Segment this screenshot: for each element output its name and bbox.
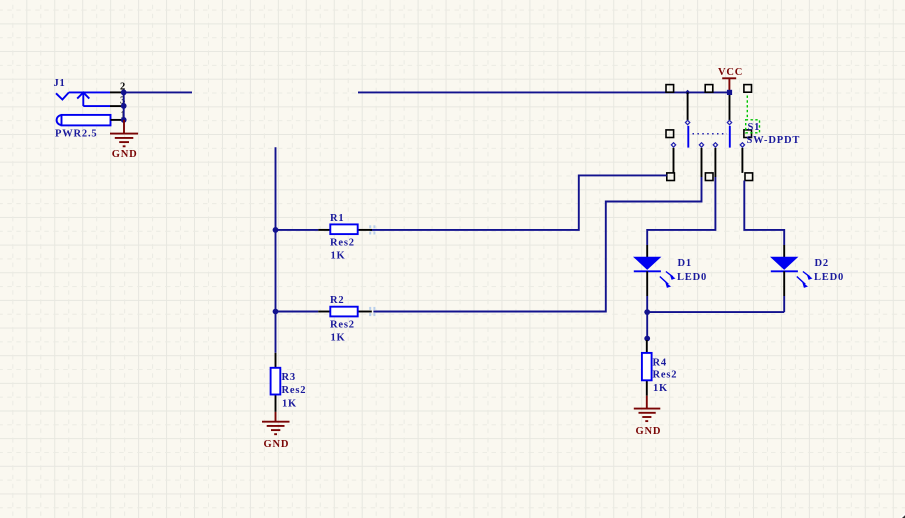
switch S1 terminal square top-mid <box>705 85 713 93</box>
J1 pin 3 <box>110 105 122 107</box>
svg-text:GND: GND <box>264 439 290 450</box>
wire J1 pins vertical <box>123 92 125 120</box>
svg-text:PWR2.5: PWR2.5 <box>55 129 97 140</box>
svg-text:R3: R3 <box>282 372 296 383</box>
window corner artifact <box>900 513 905 518</box>
svg-text:1K: 1K <box>282 398 297 409</box>
wire R2 to switch throw 1b <box>373 177 701 312</box>
switch S1 terminal square bottom-right <box>745 173 753 181</box>
wire to R2 <box>276 311 319 313</box>
resistor R3 <box>271 353 281 412</box>
resistor R2 <box>318 307 372 317</box>
wire top bus <box>358 91 730 93</box>
switch S1 mechanical link dotted <box>693 133 728 135</box>
switch S1 common pin 1 <box>687 92 689 120</box>
power port GND at R4 <box>634 396 661 421</box>
wire D2 cathode down <box>783 296 785 312</box>
junction at J1 pin 1 <box>121 117 127 123</box>
resistor R1 <box>318 224 372 234</box>
svg-text:Res2: Res2 <box>653 370 678 381</box>
wire switch throw 2a to D1 anode <box>647 177 715 245</box>
switch S1 throw pin 1a <box>673 148 675 173</box>
junction at R1 tap <box>273 227 279 233</box>
svg-text:1K: 1K <box>331 333 346 344</box>
J1 pin 1 <box>111 119 123 121</box>
power port GND at R3 <box>262 412 290 434</box>
junction at R4 pin <box>644 336 650 342</box>
J1 pin 2 <box>110 91 122 93</box>
switch S1 throw hotspot diamond 1a <box>671 143 675 147</box>
svg-text:Res2: Res2 <box>282 385 307 396</box>
junction diamond at switch common 1 <box>685 90 690 95</box>
switch S1 throw hotspot diamond 2b <box>740 143 744 147</box>
wire cathode bus <box>647 311 784 313</box>
svg-text:LED0: LED0 <box>814 272 844 283</box>
svg-text:1K: 1K <box>331 250 346 261</box>
LED D1 <box>633 245 676 296</box>
switch S1 lever 2 <box>729 126 731 148</box>
green selection box around S1 <box>746 120 760 133</box>
green selection dashes to designator <box>746 96 748 120</box>
wire D1 cathode down <box>646 296 648 340</box>
svg-text:Res2: Res2 <box>330 320 355 331</box>
svg-text:GND: GND <box>636 426 662 437</box>
switch S1 common pin 2 <box>729 95 731 120</box>
junction at J1 pin 2 <box>121 90 127 96</box>
junction at R2 tap <box>273 309 279 315</box>
power port GND at J1 <box>110 120 138 146</box>
LED D2 <box>770 245 813 296</box>
switch S1 throw pin 2b <box>741 148 743 173</box>
svg-text:R1: R1 <box>330 213 344 224</box>
power port VCC <box>722 78 736 90</box>
switch S1 throw pin 2a <box>714 148 716 177</box>
svg-text:S1: S1 <box>748 122 761 133</box>
switch S1 throw hotspot diamond 2a <box>713 143 717 147</box>
wire to R1 <box>276 229 319 231</box>
junction square at VCC wire end <box>727 90 732 95</box>
svg-text:GND: GND <box>112 149 138 160</box>
svg-text:SW-DPDT: SW-DPDT <box>747 135 801 146</box>
switch S1 terminal square bottom-mid <box>705 173 713 181</box>
switch S1 terminal square mid-right <box>744 130 752 138</box>
switch S1 common hotspot diamond 1 <box>685 120 689 124</box>
switch S1 terminal square mid-left <box>666 130 674 138</box>
switch S1 lever 1 <box>687 126 689 148</box>
svg-text:R2: R2 <box>330 295 344 306</box>
svg-text:VCC: VCC <box>718 67 743 78</box>
wire left vertical bus <box>275 147 277 353</box>
svg-text:J1: J1 <box>54 78 66 89</box>
junction at cathode bus <box>644 309 650 315</box>
wire R1 to switch throw 1a <box>370 175 667 230</box>
svg-text:R4: R4 <box>653 357 667 368</box>
pin-end marker at R1 wire <box>369 225 375 234</box>
wire from J1 pin 2 <box>124 91 192 93</box>
svg-text:1K: 1K <box>653 383 668 394</box>
switch S1 terminal square bottom-left <box>667 173 675 181</box>
switch S1 common hotspot diamond 2 <box>727 120 731 124</box>
switch S1 throw hotspot diamond 1b <box>699 143 703 147</box>
switch S1 throw pin 1b <box>701 148 703 177</box>
svg-text:D1: D1 <box>678 258 692 269</box>
switch S1 terminal square top-left <box>666 85 674 93</box>
junction at J1 pin 3 <box>121 103 127 109</box>
pin-end marker at R2 wire <box>369 307 375 316</box>
switch S1 terminal square top-right <box>744 85 752 93</box>
connector J1 symbol <box>56 92 111 125</box>
wire switch throw 2b to D2 anode <box>744 181 784 246</box>
svg-text:LED0: LED0 <box>677 272 707 283</box>
svg-text:Res2: Res2 <box>330 237 355 248</box>
svg-text:D2: D2 <box>815 258 829 269</box>
resistor R4 <box>642 340 652 396</box>
